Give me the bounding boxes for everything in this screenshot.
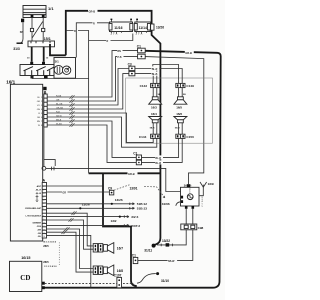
svg-text:-BL-R: -BL-R — [35, 190, 41, 192]
wire label BL-B mid — [155, 160, 163, 164]
hook at 16/16 bottom left — [176, 202, 181, 206]
ground point 31/10 — [156, 272, 159, 275]
svg-text:JORDKABEL-BAT: JORDKABEL-BAT — [25, 207, 42, 210]
svg-text:POWER: POWER — [202, 196, 204, 207]
wire label BL-R mid — [155, 155, 163, 159]
front speaker connector 16/7 — [93, 244, 103, 252]
wires C1 mid to C150 — [142, 138, 179, 157]
svg-text:16/7: 16/7 — [117, 247, 123, 251]
svg-text:-GN: -GN — [37, 233, 41, 235]
wire label R top — [93, 21, 98, 26]
pin stubs 11/14 — [137, 32, 147, 34]
svg-text:GR: GR — [62, 191, 66, 194]
thick branch y173 — [89, 172, 161, 174]
svg-text:16/3: 16/3 — [151, 106, 157, 110]
connector C107 — [117, 277, 122, 287]
wire label GR — [62, 190, 68, 194]
svg-text:C1: C1 — [132, 254, 136, 258]
pin stubs 11/16 — [112, 32, 122, 34]
wire feed C149 pin1 — [153, 65, 179, 84]
long wire W1: C1 right around page border to CD changer — [42, 51, 221, 288]
strip A wire 2/37:2 row — [47, 224, 129, 226]
connector C144 — [151, 134, 160, 138]
svg-text:GR-B: GR-B — [185, 51, 192, 55]
arrow 2/37:2 — [124, 224, 129, 226]
wire label BL-R — [151, 67, 159, 71]
wire radio ground to bottom — [47, 235, 91, 287]
ground wire 31/3 — [18, 22, 24, 43]
svg-text:16/16: 16/16 — [184, 183, 192, 187]
rear door enclosure box — [126, 78, 213, 143]
ground symbol 31/3 — [17, 42, 23, 44]
svg-text:16/15: 16/15 — [21, 256, 30, 260]
arrow 3/2:4 — [124, 215, 129, 217]
strip B wire labels right — [56, 95, 63, 125]
svg-text:SB-R: SB-R — [150, 127, 155, 129]
svg-text:13/2: 13/2 — [111, 219, 117, 223]
svg-text:16/1: 16/1 — [6, 80, 15, 85]
svg-text:BN: BN — [37, 121, 40, 123]
wire label GR-B top — [88, 9, 98, 14]
wire label BL-B — [151, 72, 159, 76]
wire C3 to C143 pin1 — [135, 74, 153, 84]
svg-text:R-B: R-B — [56, 111, 60, 113]
svg-text:BN: BN — [117, 50, 121, 53]
wire radio to C3 pin1 — [47, 69, 129, 106]
wire W2: C1 to antenna amplifier — [145, 57, 204, 185]
speaker 16/7 — [103, 243, 113, 254]
svg-text:B: B — [44, 91, 47, 95]
svg-text:3: 3 — [43, 193, 44, 195]
strip A labels left — [25, 185, 42, 238]
svg-text:12: 12 — [43, 229, 45, 231]
module 11/16 — [109, 19, 133, 32]
wires 16/4 to C144 — [153, 123, 157, 134]
svg-text:11: 11 — [43, 226, 45, 228]
strip B wire colour labels left — [37, 97, 41, 127]
wire to 11/14 — [89, 34, 133, 41]
svg-text:31/3: 31/3 — [13, 47, 20, 51]
svg-text:13/26: 13/26 — [156, 25, 164, 29]
connector C1 top — [138, 48, 146, 59]
svg-text:-ANT: -ANT — [36, 185, 42, 188]
CD changer 16/15 box — [10, 261, 42, 291]
wires C149 to speaker 16/5 — [179, 88, 183, 97]
wire C3 to C149 pin2 — [135, 69, 182, 84]
junction dot 13/26 — [111, 203, 113, 205]
arrow 51B:12 — [130, 203, 135, 205]
wire label SB — [168, 258, 178, 263]
connector 13/22 — [166, 243, 170, 246]
svg-text:SB: SB — [20, 31, 24, 34]
svg-text:A: A — [42, 179, 45, 183]
svg-text:14: 14 — [43, 236, 45, 238]
fuse box 1/1 — [21, 6, 46, 23]
connector square right — [42, 28, 45, 31]
svg-text:26/5: 26/5 — [43, 244, 49, 248]
cable slashes front speaker wires — [62, 211, 77, 234]
svg-text:C1: C1 — [133, 151, 137, 155]
ticks 13/22 — [161, 244, 172, 247]
connector C1 bottom — [133, 257, 138, 263]
svg-text:VO: VO — [37, 105, 40, 107]
svg-text:26/5: 26/5 — [43, 260, 49, 264]
svg-text:13/26: 13/26 — [82, 203, 90, 207]
strip A wire row 1 — [47, 185, 103, 187]
connector C150 — [176, 134, 185, 138]
cable slash marks strip B — [70, 95, 75, 127]
wire x88.6 down to thick junction — [66, 31, 89, 174]
svg-text:11/14: 11/14 — [139, 26, 147, 30]
svg-text:CD: CD — [20, 274, 30, 282]
svg-text:15/1: 15/1 — [44, 37, 51, 41]
svg-text:BL-R: BL-R — [152, 68, 158, 71]
svg-text:3/1: 3/1 — [55, 60, 60, 64]
svg-text:R-SB: R-SB — [56, 95, 62, 97]
ignition switch 3/1 contact box — [20, 62, 54, 79]
svg-text:11/16: 11/16 — [114, 26, 122, 30]
svg-text:C144: C144 — [139, 135, 147, 139]
wire to ground 31/10 — [137, 274, 156, 284]
svg-text:13/26: 13/26 — [115, 198, 123, 202]
svg-text:GROUND: GROUND — [189, 187, 191, 199]
svg-text:31/11: 31/11 — [144, 248, 152, 252]
antenna 16/9 — [199, 182, 207, 196]
ground point 31/11 — [152, 244, 156, 248]
speaker 16/5 — [174, 97, 187, 104]
svg-text:6: 6 — [43, 203, 44, 205]
svg-text:16/4: 16/4 — [151, 112, 157, 116]
strip A wire 51B:13 row — [47, 207, 135, 209]
dotted link radio to CD — [58, 243, 60, 267]
ignition key symbol box — [54, 58, 76, 79]
svg-text:BL-B: BL-B — [155, 162, 161, 165]
wire W3 to 11/16 — [76, 23, 109, 58]
speaker 16/4 — [149, 117, 162, 123]
svg-text:2: 2 — [43, 190, 44, 192]
connector C3 — [129, 66, 135, 76]
wires radio to C1 mid — [47, 121, 136, 157]
connector bar 15/1 — [28, 41, 55, 47]
wire label R — [106, 38, 111, 43]
svg-text:GR: GR — [56, 99, 60, 101]
svg-text:BL-B: BL-B — [152, 73, 158, 76]
svg-text:51B:13: 51B:13 — [137, 207, 147, 211]
connector 13/26 on thick wire top — [149, 24, 154, 30]
svg-text:W-SB: W-SB — [56, 123, 62, 125]
arrow 51B:13 — [130, 207, 135, 209]
wire label P-B — [117, 54, 124, 58]
antenna amplifier 16/16 — [181, 184, 204, 206]
wire C98 to C1 bottom — [138, 230, 193, 261]
svg-text:8: 8 — [43, 215, 44, 217]
dashed wire 13/91 right — [144, 187, 165, 198]
svg-text:SB-W: SB-W — [168, 260, 175, 263]
connector C1 mid — [136, 155, 141, 165]
svg-text:13/22: 13/22 — [162, 239, 170, 243]
svg-text:-SW: -SW — [37, 229, 41, 231]
svg-text:L.HOGTALARE-R: L.HOGTALARE-R — [25, 214, 41, 217]
svg-text:1: 1 — [43, 186, 44, 188]
speaker 16/8 — [103, 265, 113, 276]
connector strip B — [44, 94, 47, 127]
strip A wire 51B:12 row — [47, 203, 135, 205]
dashed wire C9 to 13/91 — [114, 185, 130, 190]
junction dot 13/2 — [119, 216, 121, 218]
connector square left — [30, 28, 33, 31]
wire radio to C1 pin1 — [47, 51, 138, 97]
diagonal switch wire — [32, 22, 43, 38]
thick branch down to bottom — [103, 173, 137, 286]
svg-text:5: 5 — [43, 200, 44, 202]
svg-text:51B:12: 51B:12 — [137, 202, 147, 206]
wire fuse to bar left — [31, 18, 33, 42]
svg-text:C1: C1 — [137, 44, 141, 48]
svg-text:C150: C150 — [186, 135, 194, 139]
svg-text:10: 10 — [43, 223, 45, 225]
svg-text:C98: C98 — [198, 226, 204, 230]
ground glyphs strip A — [36, 195, 39, 202]
svg-text:2 7 A: 2 7 A — [111, 33, 118, 36]
front speaker connector 16/8 — [93, 266, 103, 274]
svg-text:1/1: 1/1 — [48, 6, 54, 11]
svg-text:R: R — [93, 23, 95, 26]
CD pins — [42, 282, 45, 285]
svg-text:BN-B: BN-B — [56, 119, 62, 121]
radio unit 16/1 box — [10, 84, 42, 241]
wires C143 to speaker 16/3 — [153, 88, 157, 97]
svg-text:13/91: 13/91 — [130, 186, 138, 190]
svg-text:SB-R: SB-R — [175, 127, 180, 129]
svg-text:P-B: P-B — [117, 56, 121, 59]
connector C149 — [176, 83, 185, 87]
pin square above strip B — [43, 87, 46, 90]
strip A wire 3/2:4 row — [47, 216, 129, 218]
strip A pin numbers — [43, 186, 45, 238]
wire label GR-B right — [185, 50, 194, 55]
connector C9 — [109, 190, 113, 195]
svg-text:4: 4 — [43, 196, 44, 198]
thick stubs bar to ignition — [32, 47, 44, 62]
wire radio to C1 pin2 — [47, 57, 138, 101]
wire C98 to ground 31/11 — [157, 230, 186, 245]
svg-text:GN: GN — [37, 109, 41, 111]
speaker 16/3 — [149, 97, 162, 104]
wire label R2 — [74, 28, 79, 33]
svg-text:BL-R: BL-R — [155, 157, 161, 160]
svg-text:7: 7 — [43, 208, 44, 210]
strip B pin numbers — [41, 97, 43, 127]
dashed wire CD to C107 — [45, 282, 134, 284]
connector C98 — [181, 224, 197, 230]
svg-text:C9: C9 — [108, 187, 112, 191]
wires 16/6 to C150 — [179, 123, 183, 134]
thick bus wire: bar 15/1 up, across top, down right side to ground 31/11 — [50, 11, 160, 245]
svg-text:SB-W: SB-W — [56, 115, 63, 117]
svg-text:C149: C149 — [186, 84, 194, 88]
svg-text:3/2:4: 3/2:4 — [131, 215, 138, 219]
svg-text:C:1 2 3 4 5 6: C:1 2 3 4 5 6 — [44, 265, 57, 268]
strip A wire to C9 — [47, 191, 110, 193]
connector strip A — [42, 183, 46, 239]
svg-text:2 7 A: 2 7 A — [136, 33, 143, 36]
svg-text:BL-SB: BL-SB — [56, 103, 63, 105]
junction dot 13/26 left — [79, 207, 81, 209]
antenna feed circuit at radio — [42, 127, 181, 191]
svg-text:16/6: 16/6 — [176, 112, 182, 116]
svg-text:GR-B: GR-B — [89, 9, 96, 13]
speaker 16/6 — [174, 117, 187, 123]
wire fuse to bar right — [42, 18, 44, 42]
svg-text:R: R — [107, 40, 109, 43]
svg-text:DIMMER: DIMMER — [33, 223, 42, 225]
wires strip A to front speaker 16/8 — [47, 229, 94, 269]
wire ignition bottom to junction — [32, 76, 89, 79]
wires 16/16 to C98 — [186, 209, 193, 224]
svg-text:16/9: 16/9 — [208, 182, 214, 186]
wire radio to C3 pin2 — [47, 74, 129, 109]
wires strip A to front speaker 16/7 — [47, 213, 94, 246]
svg-text:C143: C143 — [140, 84, 148, 88]
connector C143 — [151, 83, 160, 87]
wire label BN — [117, 48, 123, 52]
svg-text:C107: C107 — [114, 273, 122, 277]
module 11/14 — [134, 19, 150, 32]
svg-text:13: 13 — [43, 233, 45, 235]
arrow to 31/66 — [163, 196, 165, 198]
svg-text:9: 9 — [43, 219, 44, 221]
svg-text:16/5: 16/5 — [176, 106, 182, 110]
svg-text:31/66: 31/66 — [162, 202, 170, 206]
wires C144 back to radio — [47, 113, 153, 143]
svg-text:GR-B: GR-B — [128, 172, 135, 176]
svg-text:C3: C3 — [128, 63, 132, 67]
wire label GR-B mid — [128, 171, 138, 176]
svg-text:GR-SB: GR-SB — [56, 107, 63, 109]
svg-text:2/37:2: 2/37:2 — [131, 224, 140, 228]
svg-text:31/10: 31/10 — [161, 279, 169, 283]
svg-text:-BL-B: -BL-B — [35, 193, 41, 195]
svg-text:GR: GR — [37, 101, 41, 103]
svg-text:R: R — [74, 30, 76, 33]
